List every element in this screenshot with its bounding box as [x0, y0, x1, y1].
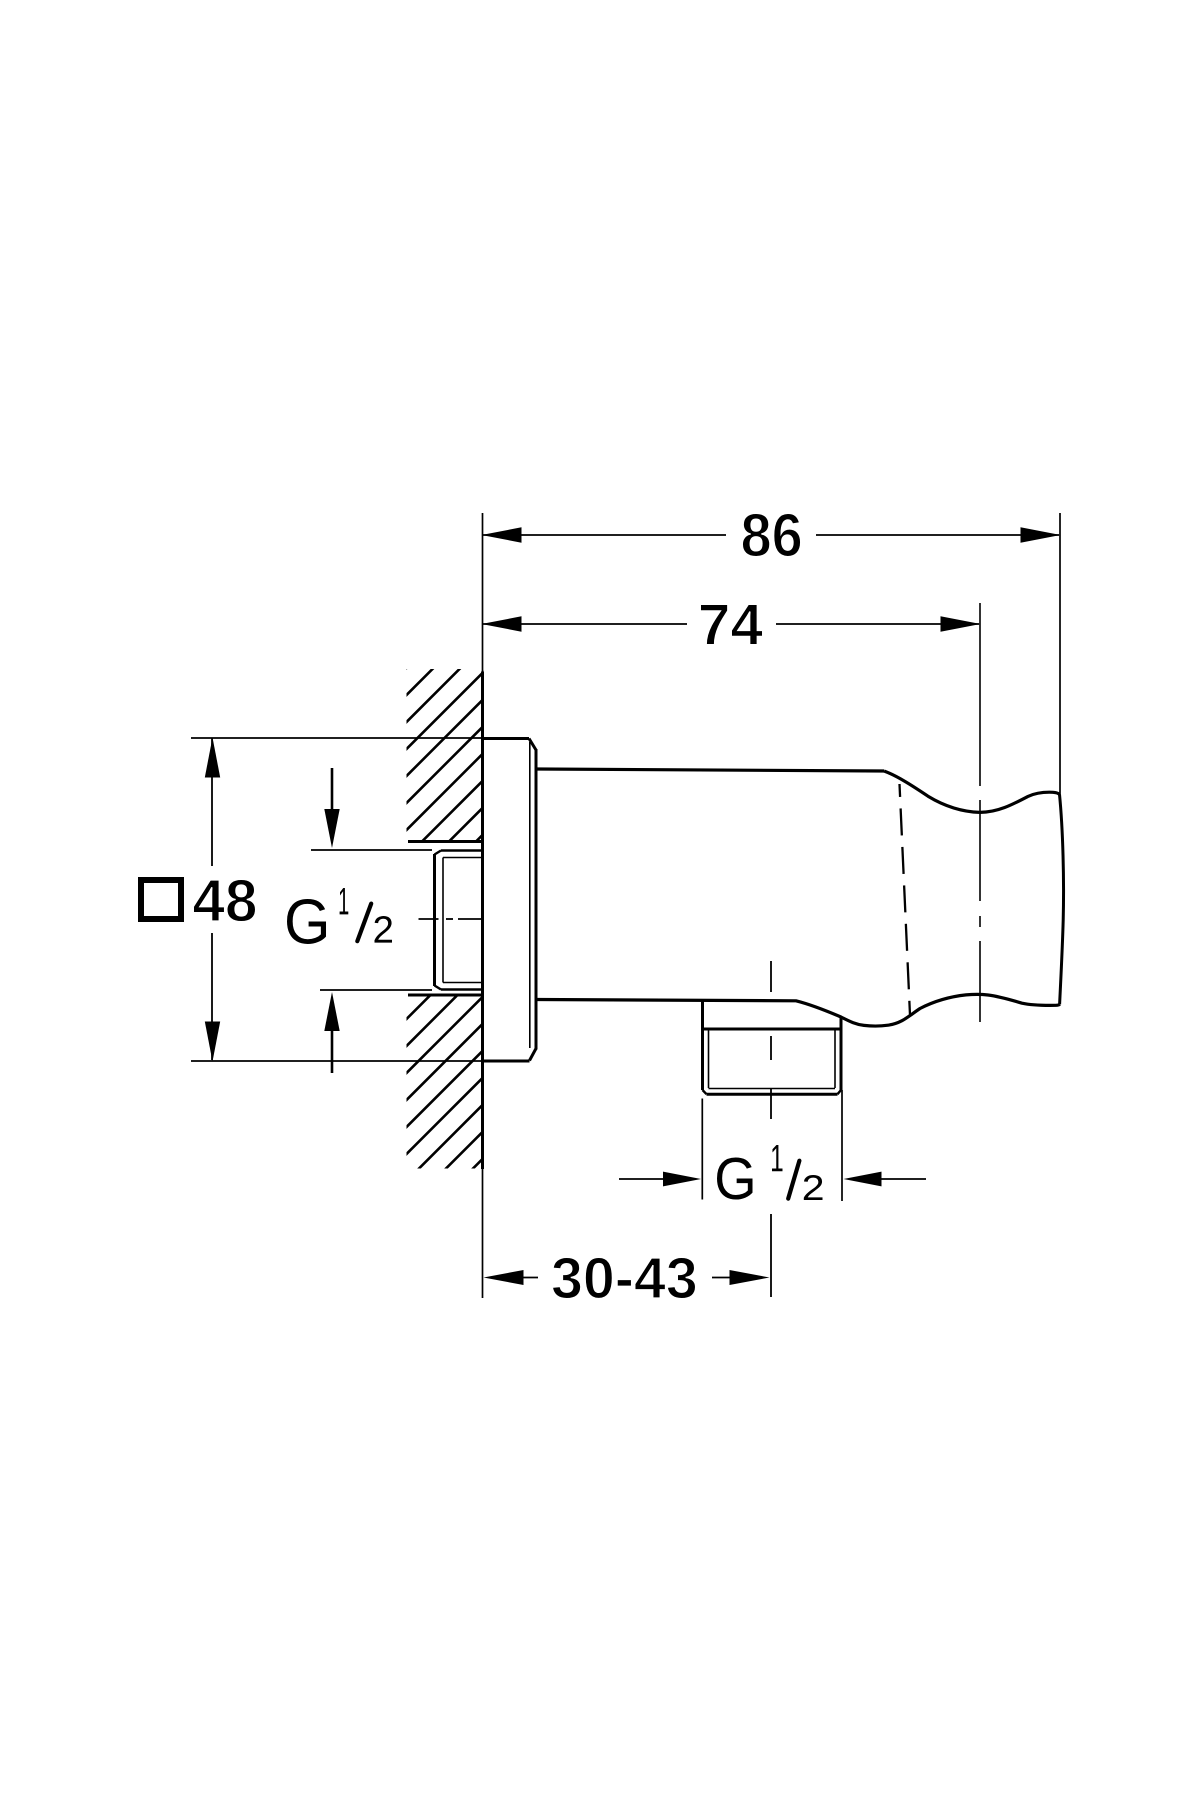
wall hatching lower — [403, 590, 485, 1320]
wall hole upper edge — [408, 840, 482, 843]
dimension 30-43 left arrow — [484, 1270, 524, 1285]
holder right edge — [1060, 794, 1064, 1004]
dimension 48 extension top — [191, 737, 482, 739]
dimension 48 line — [211, 738, 213, 1060]
dimension 48 text — [193, 879, 255, 921]
flange escutcheon — [482, 739, 536, 1062]
nipple top extension line — [311, 849, 432, 851]
outlet G 1/2 dim left arrow — [619, 1178, 664, 1180]
wall hole lower edge — [408, 994, 482, 997]
wall thread label 1 — [340, 888, 349, 914]
outlet thread label slash — [788, 1161, 799, 1199]
wall hatching upper — [403, 590, 485, 1320]
dimension 74 right arrow — [941, 616, 981, 631]
extension line above wall for dims 86 and 74 — [482, 513, 484, 672]
outlet thread label 2 — [804, 1175, 823, 1200]
dimension 30-43 right arrow — [730, 1270, 770, 1285]
dimension 48 extension bottom — [191, 1060, 482, 1062]
outlet G 1/2 dim right arrow — [881, 1178, 926, 1180]
dimension 30-43 line — [521, 1277, 733, 1279]
dimension 86 text — [742, 513, 800, 556]
holder hidden contour dashed — [900, 784, 911, 1015]
extension centre line for dim 74 through holder — [979, 603, 981, 1022]
nipple bottom extension line — [320, 989, 432, 991]
dimension 74 line — [482, 623, 979, 625]
nipple dim down arrow — [331, 768, 334, 812]
outlet thread label G — [717, 1157, 752, 1199]
dimension 48 top arrow — [205, 738, 220, 778]
holder grip top wave — [884, 771, 1060, 812]
wall thread label slash — [357, 904, 371, 942]
nipple centre line — [419, 918, 482, 920]
dimension 48 bottom arrow — [205, 1022, 220, 1062]
wall thread nipple — [435, 851, 483, 990]
outlet G 1/2 extension right — [841, 1090, 843, 1201]
extension line below wall for dim 30-43 — [482, 1169, 484, 1298]
holder body top line — [537, 769, 884, 771]
outlet centre line — [770, 961, 772, 1297]
wall face line — [481, 672, 484, 1170]
outlet port — [703, 1001, 842, 1094]
outlet thread label 1 — [772, 1145, 782, 1171]
dimension 86 right arrow — [1021, 527, 1061, 542]
wall thread label 2 — [375, 916, 393, 943]
dimension 86 line — [482, 534, 1059, 536]
holder bottom line and grip bottom wave — [537, 994, 1060, 1026]
dimension 86 left arrow — [482, 527, 522, 542]
dimension 30-43 text — [552, 1257, 695, 1298]
dimension 74 text — [700, 604, 762, 644]
square section symbol — [141, 880, 181, 919]
extension line right for dim 86 — [1059, 513, 1061, 795]
outlet G 1/2 extension left — [701, 1099, 703, 1200]
wall thread label G — [287, 899, 326, 944]
dimension 74 left arrow — [482, 616, 522, 631]
nipple dim up arrow — [331, 1030, 334, 1073]
